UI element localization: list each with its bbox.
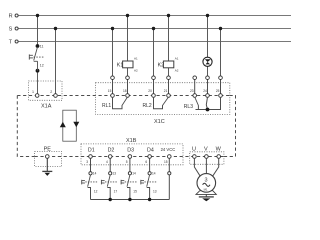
svg-text:1: 1 — [32, 90, 34, 94]
svg-text:PE: PE — [44, 147, 52, 153]
svg-text:U: U — [192, 146, 196, 152]
svg-text:15: 15 — [164, 160, 168, 164]
svg-text:21: 21 — [164, 89, 168, 93]
svg-text:RL2: RL2 — [143, 103, 152, 109]
svg-text:17: 17 — [114, 189, 118, 193]
svg-text:14: 14 — [152, 172, 156, 176]
svg-text:D2: D2 — [108, 148, 115, 154]
svg-text:X1C: X1C — [154, 119, 165, 125]
svg-text:18: 18 — [123, 89, 127, 93]
svg-text:M1: M1 — [204, 188, 208, 192]
svg-text:RL1: RL1 — [102, 103, 111, 109]
svg-text:A2: A2 — [175, 69, 179, 73]
svg-text:D1: D1 — [88, 148, 95, 154]
svg-text:X1A: X1A — [41, 103, 52, 109]
svg-text:15: 15 — [108, 89, 112, 93]
svg-text:23: 23 — [190, 89, 194, 93]
svg-text:15: 15 — [133, 189, 137, 193]
svg-text:6: 6 — [145, 160, 147, 164]
svg-text:R: R — [9, 14, 13, 20]
svg-text:W: W — [216, 146, 222, 152]
svg-text:2: 2 — [50, 90, 52, 94]
svg-text:RL3: RL3 — [184, 104, 193, 110]
svg-text:A2: A2 — [134, 69, 138, 73]
svg-text:V: V — [204, 146, 208, 152]
svg-text:D3: D3 — [127, 148, 134, 154]
svg-text:14: 14 — [93, 172, 97, 176]
svg-text:12: 12 — [40, 64, 44, 68]
svg-text:14: 14 — [132, 172, 136, 176]
svg-text:D4: D4 — [147, 148, 154, 154]
svg-text:S: S — [9, 27, 13, 33]
svg-text:A1: A1 — [134, 57, 138, 61]
svg-text:3: 3 — [86, 160, 88, 164]
svg-text:13: 13 — [153, 189, 157, 193]
svg-text:25: 25 — [216, 89, 220, 93]
svg-text:K2: K2 — [158, 62, 165, 68]
svg-text:K1: K1 — [117, 62, 124, 68]
svg-text:24: 24 — [203, 89, 207, 93]
svg-text:20: 20 — [148, 89, 152, 93]
svg-text:24 VCC: 24 VCC — [161, 147, 176, 152]
svg-text:4: 4 — [106, 160, 108, 164]
svg-text:5: 5 — [126, 160, 128, 164]
svg-text:13: 13 — [113, 172, 117, 176]
svg-text:3: 3 — [205, 178, 208, 184]
svg-text:X1B: X1B — [126, 138, 137, 144]
svg-text:11: 11 — [40, 45, 44, 49]
svg-text:12: 12 — [94, 189, 98, 193]
svg-text:A1: A1 — [175, 57, 179, 61]
